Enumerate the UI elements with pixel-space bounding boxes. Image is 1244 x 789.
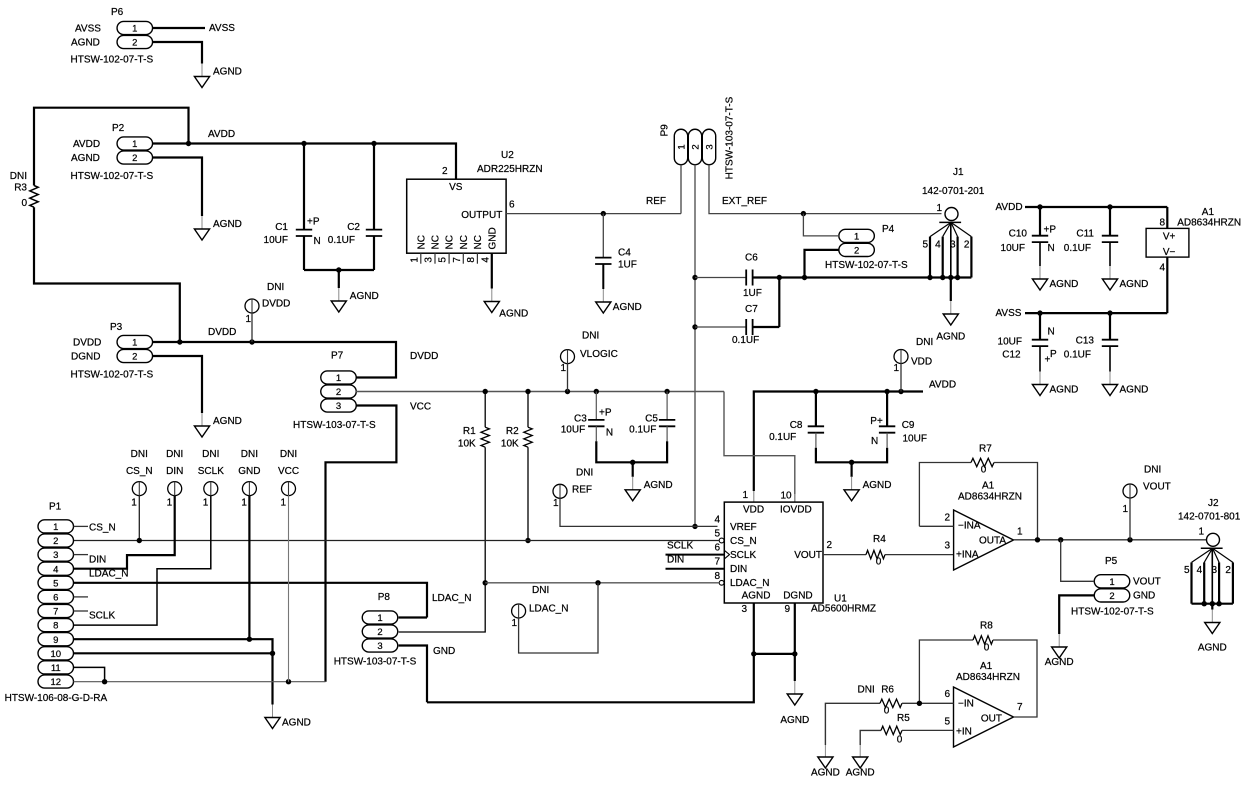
svg-text:AGND: AGND	[1050, 279, 1079, 290]
svg-text:3: 3	[53, 550, 58, 561]
svg-text:C6: C6	[745, 253, 758, 264]
svg-text:SCLK: SCLK	[89, 611, 115, 622]
svg-text:J1: J1	[953, 167, 964, 178]
svg-text:6: 6	[509, 200, 515, 211]
svg-text:SCLK: SCLK	[198, 466, 224, 477]
svg-text:1: 1	[854, 232, 859, 243]
svg-text:R7: R7	[979, 444, 992, 455]
svg-text:4: 4	[480, 257, 491, 263]
svg-text:DNI: DNI	[858, 685, 875, 696]
svg-text:2: 2	[132, 352, 137, 363]
svg-text:1: 1	[742, 490, 748, 501]
svg-text:DIN: DIN	[730, 564, 747, 575]
svg-text:1: 1	[377, 613, 382, 624]
svg-text:2: 2	[336, 387, 341, 398]
svg-text:10: 10	[781, 491, 793, 502]
svg-text:10UF: 10UF	[903, 434, 927, 445]
svg-text:VS: VS	[449, 182, 463, 193]
svg-text:0: 0	[981, 465, 987, 476]
svg-text:1: 1	[1109, 577, 1114, 588]
svg-text:P1: P1	[49, 502, 62, 513]
svg-text:A1: A1	[982, 481, 995, 492]
svg-text:DIN: DIN	[667, 555, 684, 566]
svg-text:3: 3	[705, 144, 716, 149]
svg-text:2: 2	[691, 144, 702, 149]
svg-text:2: 2	[1225, 565, 1231, 576]
svg-text:AD8634HRZN: AD8634HRZN	[958, 491, 1022, 502]
svg-text:2: 2	[854, 246, 859, 257]
svg-text:AGND: AGND	[71, 38, 100, 49]
svg-text:AD8634HRZN: AD8634HRZN	[956, 672, 1020, 683]
svg-text:OUTPUT: OUTPUT	[461, 210, 502, 221]
svg-text:VCC: VCC	[410, 402, 431, 413]
svg-text:P5: P5	[1105, 556, 1118, 567]
svg-text:GND: GND	[487, 227, 498, 249]
svg-text:+IN: +IN	[956, 726, 972, 737]
svg-text:CS_N: CS_N	[126, 466, 153, 477]
svg-text:1: 1	[560, 363, 566, 374]
svg-text:VOUT: VOUT	[1143, 482, 1171, 493]
svg-text:HTSW-102-07-T-S: HTSW-102-07-T-S	[71, 370, 154, 381]
svg-text:LDAC_N: LDAC_N	[529, 604, 568, 615]
svg-text:1UF: 1UF	[618, 260, 637, 271]
svg-text:1: 1	[1122, 504, 1128, 515]
svg-text:2: 2	[53, 536, 58, 547]
svg-text:AGND: AGND	[350, 291, 379, 302]
svg-text:DNI: DNI	[267, 282, 284, 293]
svg-text:2: 2	[1109, 591, 1114, 602]
svg-text:J2: J2	[1208, 498, 1219, 509]
svg-text:C2: C2	[347, 222, 360, 233]
svg-text:AVDD: AVDD	[996, 202, 1023, 213]
svg-text:DVDD: DVDD	[410, 351, 438, 362]
svg-text:C5: C5	[645, 414, 658, 425]
svg-text:R4: R4	[873, 534, 886, 545]
svg-text:1: 1	[132, 24, 137, 35]
svg-text:VDD: VDD	[743, 505, 764, 516]
svg-text:V+: V+	[1163, 232, 1176, 243]
svg-text:0: 0	[884, 706, 890, 717]
svg-text:AGND: AGND	[1045, 657, 1074, 668]
svg-text:AGND: AGND	[780, 715, 809, 726]
svg-text:DGND: DGND	[71, 352, 100, 363]
svg-text:OUTA: OUTA	[979, 536, 1006, 547]
svg-text:7: 7	[714, 557, 720, 568]
svg-text:5: 5	[438, 257, 449, 263]
svg-text:AVDD: AVDD	[929, 380, 956, 391]
svg-text:AGND: AGND	[742, 590, 771, 601]
svg-text:0.1UF: 0.1UF	[769, 432, 796, 443]
svg-text:GND: GND	[238, 466, 260, 477]
svg-text:2: 2	[132, 153, 137, 164]
svg-text:1: 1	[1017, 527, 1023, 538]
svg-text:4: 4	[714, 514, 720, 525]
svg-text:0.1UF: 0.1UF	[732, 335, 759, 346]
svg-text:0.1UF: 0.1UF	[1064, 243, 1091, 254]
svg-text:DIN: DIN	[89, 555, 106, 566]
svg-text:DVDD: DVDD	[73, 338, 101, 349]
svg-text:10UF: 10UF	[561, 424, 585, 435]
svg-text:NC: NC	[431, 235, 442, 249]
svg-text:1: 1	[53, 522, 58, 533]
svg-text:REF: REF	[646, 196, 666, 207]
svg-text:VLOGIC: VLOGIC	[580, 349, 618, 360]
svg-text:AGND: AGND	[71, 153, 100, 164]
svg-text:HTSW-102-07-T-S: HTSW-102-07-T-S	[1071, 607, 1154, 618]
svg-text:1: 1	[511, 618, 517, 629]
svg-text:7: 7	[1017, 702, 1023, 713]
svg-text:R2: R2	[506, 426, 519, 437]
svg-text:AGND: AGND	[213, 67, 242, 78]
svg-text:−IN: −IN	[958, 698, 974, 709]
svg-text:N: N	[1048, 243, 1055, 254]
svg-text:2: 2	[442, 166, 448, 177]
svg-text:P9: P9	[660, 124, 671, 137]
svg-text:VOUT: VOUT	[1133, 577, 1161, 588]
svg-text:0: 0	[984, 642, 990, 653]
svg-text:0: 0	[21, 198, 27, 209]
svg-text:0.1UF: 0.1UF	[328, 235, 355, 246]
svg-text:10K: 10K	[458, 438, 476, 449]
svg-text:SCLK: SCLK	[730, 550, 756, 561]
svg-text:3: 3	[950, 239, 956, 250]
svg-text:C12: C12	[1002, 350, 1021, 361]
svg-text:V−: V−	[1163, 247, 1176, 258]
svg-text:AGND: AGND	[282, 718, 311, 729]
svg-text:DNI: DNI	[166, 449, 183, 460]
svg-text:−INA: −INA	[958, 521, 981, 532]
svg-text:EXT_REF: EXT_REF	[722, 196, 767, 207]
svg-text:VOUT: VOUT	[794, 550, 822, 561]
svg-text:LDAC_N: LDAC_N	[89, 569, 128, 580]
svg-text:2: 2	[944, 513, 950, 524]
svg-text:6: 6	[944, 689, 950, 700]
svg-text:+: +	[1045, 355, 1051, 366]
svg-text:P2: P2	[112, 123, 125, 134]
svg-text:C10: C10	[1009, 229, 1028, 240]
svg-text:1: 1	[203, 498, 209, 509]
svg-text:DNI: DNI	[916, 337, 933, 348]
svg-text:R8: R8	[980, 621, 993, 632]
svg-text:8: 8	[1159, 217, 1165, 228]
svg-text:3: 3	[336, 401, 341, 412]
svg-text:1: 1	[336, 373, 341, 384]
svg-text:9: 9	[53, 635, 58, 646]
svg-text:1: 1	[245, 314, 251, 325]
svg-text:3: 3	[741, 604, 747, 615]
svg-text:2: 2	[377, 627, 382, 638]
svg-text:12: 12	[50, 677, 61, 688]
svg-text:8: 8	[714, 571, 720, 582]
svg-text:HTSW-102-07-T-S: HTSW-102-07-T-S	[71, 55, 154, 66]
svg-text:OUT: OUT	[981, 714, 1002, 725]
svg-text:DGND: DGND	[783, 590, 812, 601]
svg-text:AGND: AGND	[499, 309, 528, 320]
svg-text:1: 1	[131, 498, 137, 509]
svg-text:4: 4	[935, 239, 941, 250]
svg-text:C8: C8	[790, 420, 803, 431]
svg-text:LDAC_N: LDAC_N	[432, 593, 471, 604]
svg-text:DNI: DNI	[532, 585, 549, 596]
svg-text:5: 5	[1184, 565, 1190, 576]
svg-text:AGND: AGND	[1198, 643, 1227, 654]
svg-text:HTSW-106-08-G-D-RA: HTSW-106-08-G-D-RA	[5, 693, 108, 704]
svg-text:VDD: VDD	[911, 357, 932, 368]
svg-text:10UF: 10UF	[264, 235, 288, 246]
svg-text:CS_N: CS_N	[89, 523, 116, 534]
svg-text:10K: 10K	[501, 438, 519, 449]
svg-text:C11: C11	[1076, 229, 1094, 240]
svg-text:AVDD: AVDD	[73, 139, 100, 150]
svg-text:DVDD: DVDD	[262, 299, 290, 310]
svg-text:1: 1	[409, 257, 420, 263]
svg-text:+INA: +INA	[956, 550, 979, 561]
svg-text:1: 1	[167, 498, 173, 509]
svg-text:N: N	[606, 428, 613, 439]
svg-text:AGND: AGND	[1050, 385, 1079, 396]
svg-text:DNI: DNI	[202, 449, 219, 460]
svg-text:C9: C9	[902, 420, 915, 431]
svg-text:NC: NC	[416, 235, 427, 249]
svg-text:1: 1	[241, 498, 247, 509]
svg-text:DNI: DNI	[1144, 465, 1161, 476]
svg-text:P6: P6	[111, 7, 124, 18]
svg-text:6: 6	[53, 593, 58, 604]
svg-text:N: N	[871, 436, 878, 447]
svg-text:C7: C7	[745, 304, 758, 315]
svg-text:AVDD: AVDD	[208, 129, 235, 140]
svg-text:DNI: DNI	[582, 331, 599, 342]
svg-text:+P: +P	[1044, 225, 1057, 236]
svg-text:2: 2	[827, 540, 833, 551]
svg-text:5: 5	[922, 239, 928, 250]
svg-text:AGND: AGND	[213, 416, 242, 427]
svg-text:1: 1	[936, 203, 942, 214]
svg-text:NC: NC	[445, 235, 456, 249]
svg-text:P7: P7	[331, 351, 344, 362]
svg-text:NC: NC	[459, 235, 470, 249]
svg-text:10UF: 10UF	[1001, 243, 1025, 254]
svg-text:DNI: DNI	[280, 449, 297, 460]
svg-text:AGND: AGND	[846, 768, 875, 779]
svg-text:DNI: DNI	[131, 449, 148, 460]
svg-text:A1: A1	[980, 661, 993, 672]
svg-text:NC: NC	[473, 235, 484, 249]
svg-text:AGND: AGND	[936, 332, 965, 343]
svg-text:REF: REF	[572, 485, 592, 496]
svg-text:2: 2	[964, 239, 970, 250]
svg-text:AVSS: AVSS	[996, 308, 1022, 319]
svg-text:8: 8	[466, 257, 477, 263]
svg-text:0.1UF: 0.1UF	[1064, 350, 1091, 361]
svg-text:11: 11	[51, 663, 61, 674]
svg-text:10: 10	[50, 649, 61, 660]
svg-text:N: N	[314, 236, 321, 247]
svg-text:142-0701-801: 142-0701-801	[1178, 512, 1241, 523]
svg-text:6: 6	[714, 543, 720, 554]
svg-text:AGND: AGND	[213, 219, 242, 230]
svg-text:DNI: DNI	[241, 449, 258, 460]
svg-text:1: 1	[280, 498, 286, 509]
svg-text:DIN: DIN	[166, 466, 183, 477]
svg-text:ADR225HRZN: ADR225HRZN	[477, 164, 543, 175]
svg-text:+P: +P	[307, 217, 320, 228]
svg-text:AGND: AGND	[644, 480, 673, 491]
svg-text:8: 8	[53, 621, 58, 632]
svg-text:1: 1	[132, 338, 137, 349]
svg-text:HTSW-103-07-T-S: HTSW-103-07-T-S	[334, 657, 417, 668]
svg-text:C1: C1	[275, 222, 288, 233]
svg-text:HTSW-103-07-T-S: HTSW-103-07-T-S	[725, 96, 736, 179]
svg-text:3: 3	[377, 641, 382, 652]
svg-text:1: 1	[132, 139, 137, 150]
svg-text:7: 7	[53, 607, 58, 618]
svg-text:9: 9	[784, 604, 790, 615]
svg-text:CS_N: CS_N	[730, 536, 757, 547]
svg-text:VREF: VREF	[730, 522, 757, 533]
svg-text:3: 3	[1212, 565, 1218, 576]
svg-text:+P: +P	[599, 408, 612, 419]
svg-text:C3: C3	[574, 414, 587, 425]
svg-text:AGND: AGND	[613, 302, 642, 313]
svg-text:1: 1	[553, 498, 559, 509]
svg-text:GND: GND	[433, 646, 455, 657]
svg-text:R5: R5	[897, 713, 910, 724]
svg-text:HTSW-102-07-T-S: HTSW-102-07-T-S	[825, 260, 908, 271]
svg-text:P3: P3	[110, 322, 123, 333]
svg-text:SCLK: SCLK	[667, 541, 693, 552]
svg-text:AGND: AGND	[811, 768, 840, 779]
svg-text:0.1UF: 0.1UF	[629, 424, 656, 435]
svg-text:VCC: VCC	[278, 466, 299, 477]
svg-text:C4: C4	[618, 248, 631, 259]
svg-text:LDAC_N: LDAC_N	[730, 578, 769, 589]
svg-text:4: 4	[1197, 565, 1203, 576]
svg-text:7: 7	[452, 257, 463, 263]
svg-text:2: 2	[132, 38, 137, 49]
svg-text:1: 1	[1198, 527, 1204, 538]
svg-text:IOVDD: IOVDD	[780, 505, 812, 516]
svg-text:1: 1	[893, 363, 899, 374]
svg-text:AVSS: AVSS	[209, 23, 235, 34]
svg-text:AGND: AGND	[863, 480, 892, 491]
svg-text:3: 3	[424, 257, 435, 263]
svg-text:N: N	[1048, 327, 1055, 338]
svg-text:AD8634HRZN: AD8634HRZN	[1177, 217, 1241, 228]
svg-text:DVDD: DVDD	[208, 327, 236, 338]
svg-text:R1: R1	[463, 426, 476, 437]
svg-text:4: 4	[1159, 262, 1165, 273]
svg-text:4: 4	[53, 564, 58, 575]
svg-text:5: 5	[944, 717, 950, 728]
svg-text:HTSW-103-07-T-S: HTSW-103-07-T-S	[293, 420, 376, 431]
svg-text:R6: R6	[881, 685, 894, 696]
svg-text:0: 0	[876, 556, 882, 567]
svg-text:R3: R3	[14, 183, 27, 194]
svg-text:DNI: DNI	[576, 468, 593, 479]
svg-text:142-0701-201: 142-0701-201	[922, 186, 985, 197]
svg-text:1UF: 1UF	[743, 288, 762, 299]
svg-text:GND: GND	[1133, 591, 1155, 602]
svg-text:U2: U2	[501, 150, 514, 161]
svg-text:P4: P4	[882, 224, 895, 235]
svg-text:5: 5	[53, 578, 58, 589]
svg-text:HTSW-102-07-T-S: HTSW-102-07-T-S	[71, 171, 154, 182]
svg-text:0: 0	[897, 735, 903, 746]
svg-text:AVSS: AVSS	[75, 24, 101, 35]
svg-text:C13: C13	[1076, 336, 1095, 347]
svg-text:5: 5	[714, 529, 720, 540]
svg-text:10UF: 10UF	[998, 337, 1022, 348]
svg-text:AD5600HRMZ: AD5600HRMZ	[811, 604, 876, 615]
svg-text:AGND: AGND	[1120, 385, 1149, 396]
svg-text:P+: P+	[870, 416, 883, 427]
svg-text:1: 1	[677, 144, 688, 149]
svg-text:AGND: AGND	[1120, 279, 1149, 290]
svg-text:3: 3	[944, 541, 950, 552]
svg-text:P: P	[1050, 349, 1057, 360]
svg-text:DNI: DNI	[10, 171, 27, 182]
svg-text:P8: P8	[378, 592, 391, 603]
